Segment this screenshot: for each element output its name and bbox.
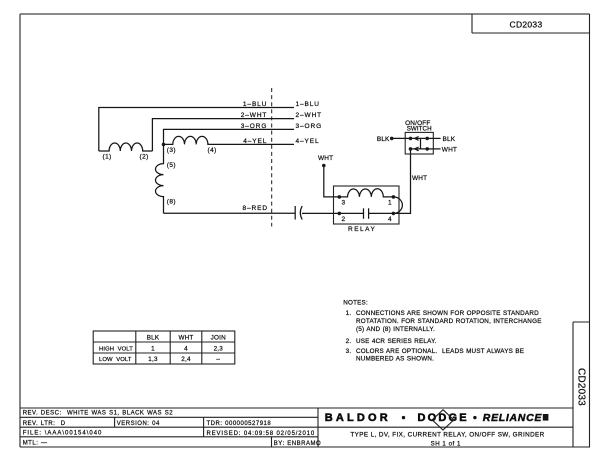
svg-text:4: 4 <box>184 345 188 352</box>
label 1-BLU (lead side) <box>296 101 320 108</box>
svg-text:CD2033: CD2033 <box>510 19 543 29</box>
wire switch to BLK lead (right) <box>427 137 440 139</box>
label 1-BLU (motor side) <box>243 101 267 108</box>
svg-text:(8): (8) <box>167 199 176 206</box>
svg-text:1: 1 <box>388 199 392 206</box>
label 8-RED <box>243 205 268 212</box>
switch contact top (with arrow) <box>411 137 428 141</box>
svg-text:8–RED: 8–RED <box>243 205 268 212</box>
svg-text:3–ORG: 3–ORG <box>296 123 323 130</box>
svg-text:USE 4CR SERIES RELAY.: USE 4CR SERIES RELAY. <box>356 338 437 345</box>
relay terminal 4 <box>392 212 396 216</box>
svg-text:2,3: 2,3 <box>214 345 224 352</box>
svg-text:BALDOR: BALDOR <box>325 412 391 424</box>
svg-text:BLK: BLK <box>377 136 390 143</box>
wire 3-ORG <box>164 129 295 144</box>
winding L3 (5)-(8) <box>156 144 164 213</box>
label WHT (right) <box>442 147 457 154</box>
svg-text:BLK: BLK <box>147 334 160 341</box>
pin label (1) <box>103 153 112 160</box>
connection table <box>93 331 235 364</box>
wire WHT lead to relay terminal 3 <box>324 166 338 197</box>
wire 8-RED <box>164 212 296 214</box>
relay coil (terminals 3-1) <box>339 189 393 197</box>
svg-text:COLORS ARE OPTIONAL. LEADS MU: COLORS ARE OPTIONAL. LEADS MUST ALWAYS B… <box>356 348 524 355</box>
svg-text:RELIANCE: RELIANCE <box>483 412 543 424</box>
svg-text:3.: 3. <box>346 348 352 355</box>
title block texts <box>23 411 321 448</box>
svg-text:MTL: —: MTL: — <box>23 441 48 447</box>
logo BALDOR DODGE RELIANCE <box>325 410 549 430</box>
winding L1 (1)-(2) <box>99 143 153 151</box>
svg-text:1.: 1. <box>346 310 352 317</box>
wire 4-YEL <box>208 143 294 145</box>
svg-text:(5): (5) <box>167 162 176 169</box>
wire 2-WHT <box>152 119 294 151</box>
wire capacitor to relay terminal 2 <box>302 212 338 214</box>
svg-text:VERSION: 04: VERSION: 04 <box>117 421 160 427</box>
wire relay terminal 4 to switch <box>393 149 410 214</box>
svg-text:(3): (3) <box>167 147 176 154</box>
capacitor C1 <box>295 206 302 220</box>
svg-text:(4): (4) <box>208 147 217 154</box>
wire switch to WHT lead (right) <box>427 148 440 150</box>
svg-text:CONNECTIONS ARE SHOWN FOR OPPO: CONNECTIONS ARE SHOWN FOR OPPOSITE STAND… <box>356 310 539 317</box>
svg-text:BLK: BLK <box>443 136 456 143</box>
pin number 2 <box>342 216 346 223</box>
svg-text:HIGH VOLT: HIGH VOLT <box>99 346 133 352</box>
label BLK (switch input) <box>377 136 390 143</box>
svg-text:NOTES:: NOTES: <box>343 299 368 306</box>
relay contact (terminals 2-4) <box>339 208 393 219</box>
svg-text:4–YEL: 4–YEL <box>296 138 320 145</box>
svg-text:SWITCH: SWITCH <box>407 126 432 133</box>
svg-text:RELAY: RELAY <box>348 226 376 233</box>
pin label (5) <box>167 162 176 169</box>
svg-text:REV. DESC: WHITE WAS S1, BLAC: REV. DESC: WHITE WAS S1, BLACK WAS S2 <box>23 411 174 417</box>
label RELAY <box>348 226 376 233</box>
svg-text:BY: ENBRAMO: BY: ENBRAMO <box>274 441 321 447</box>
pin label (2) <box>140 153 149 160</box>
relay terminal 3 <box>338 195 342 199</box>
svg-text:3: 3 <box>342 199 346 206</box>
on/off switch S1 box <box>405 132 433 154</box>
label 3-ORG (motor side) <box>241 123 268 130</box>
svg-text:2–WHT: 2–WHT <box>296 112 323 119</box>
svg-text:1–BLU: 1–BLU <box>296 101 320 108</box>
svg-text:TYPE L, DV, FIX, CURRENT RELAY: TYPE L, DV, FIX, CURRENT RELAY, ON/OFF S… <box>350 432 544 439</box>
pin label (3) <box>167 147 176 154</box>
svg-text:WHT: WHT <box>442 147 457 154</box>
title block grid <box>20 408 573 447</box>
pin number 1 <box>388 199 392 206</box>
svg-text:4: 4 <box>388 216 392 223</box>
pin number 3 <box>342 199 346 206</box>
lead BLK (switch input) <box>390 137 411 141</box>
relay U1 box <box>334 186 400 224</box>
svg-text:4–YEL: 4–YEL <box>243 138 267 145</box>
label WHT (switch to relay wire) <box>412 175 427 182</box>
svg-text:2,4: 2,4 <box>181 356 191 363</box>
svg-text:–: – <box>216 356 220 363</box>
svg-text:(1): (1) <box>103 153 112 160</box>
svg-text:WHT: WHT <box>318 155 333 162</box>
lead terminal WHT (loose lead above relay) <box>322 164 326 168</box>
label 3-ORG (lead side) <box>296 123 323 130</box>
winding L2 (3)-(4) <box>164 136 210 144</box>
pin label (4) <box>208 147 217 154</box>
svg-text:NUMBERED AS SHOWN.: NUMBERED AS SHOWN. <box>356 355 434 362</box>
label 2-WHT (lead side) <box>296 112 323 119</box>
svg-text:(5) AND (8) INTERNALLY.: (5) AND (8) INTERNALLY. <box>356 326 435 333</box>
wire 1-BLU <box>99 108 294 152</box>
svg-text:WHT: WHT <box>179 334 194 341</box>
label BLK (right) <box>443 136 456 143</box>
svg-text:CD2033: CD2033 <box>575 368 586 406</box>
svg-text:1–BLU: 1–BLU <box>243 101 267 108</box>
title block description text <box>350 432 544 448</box>
switch mechanical link <box>420 138 422 149</box>
label 2-WHT (motor side) <box>241 112 268 119</box>
svg-text:REV. LTR: D: REV. LTR: D <box>23 421 66 427</box>
switch terminal top-right <box>425 137 429 141</box>
svg-text:SH 1 of 1: SH 1 of 1 <box>431 440 461 447</box>
switch terminal bottom-left <box>409 147 413 151</box>
svg-text:WHT: WHT <box>412 175 427 182</box>
switch terminal bottom-right <box>425 147 429 151</box>
pin label (8) <box>167 199 176 206</box>
svg-text:2–WHT: 2–WHT <box>241 112 268 119</box>
svg-text:2.: 2. <box>346 338 352 345</box>
label 4-YEL (motor side) <box>243 138 267 145</box>
svg-text:FILE: \AAA\00154\040: FILE: \AAA\00154\040 <box>23 431 103 437</box>
svg-text:1: 1 <box>151 345 155 352</box>
notes <box>343 299 541 362</box>
drawing number strip CD2033 (right margin, rotated) <box>573 322 590 447</box>
motor boundary dashed line <box>271 88 273 227</box>
label WHT (loose lead) <box>318 155 333 162</box>
switch contact bottom (with arrow) <box>411 147 428 151</box>
pin number 4 <box>388 216 392 223</box>
svg-text:DODGE: DODGE <box>418 412 469 424</box>
jumper arc terminal 1 to 4 <box>393 197 402 214</box>
svg-text:1,3: 1,3 <box>148 356 158 363</box>
label 4-YEL (lead side) <box>296 138 320 145</box>
svg-text:3–ORG: 3–ORG <box>241 123 268 130</box>
label ON/OFF SWITCH <box>405 120 432 133</box>
svg-text:ROTATATION. FOR STANDARD ROTAT: ROTATATION. FOR STANDARD ROTATION, INTER… <box>356 318 542 325</box>
svg-text:2: 2 <box>342 216 346 223</box>
node (3) junction <box>162 143 166 147</box>
svg-text:JOIN: JOIN <box>211 334 226 341</box>
svg-text:LOW VOLT: LOW VOLT <box>99 357 132 363</box>
svg-text:TDR: 000000527918: TDR: 000000527918 <box>207 421 272 427</box>
switch terminal top-left <box>409 137 413 141</box>
drawing number box CD2033 (top right) <box>472 14 590 33</box>
relay terminal 1 <box>392 195 396 199</box>
svg-text:REVISED: 04:09:58 02/05/2010: REVISED: 04:09:58 02/05/2010 <box>207 431 316 437</box>
relay terminal 2 <box>338 212 342 216</box>
svg-text:(2): (2) <box>140 153 149 160</box>
